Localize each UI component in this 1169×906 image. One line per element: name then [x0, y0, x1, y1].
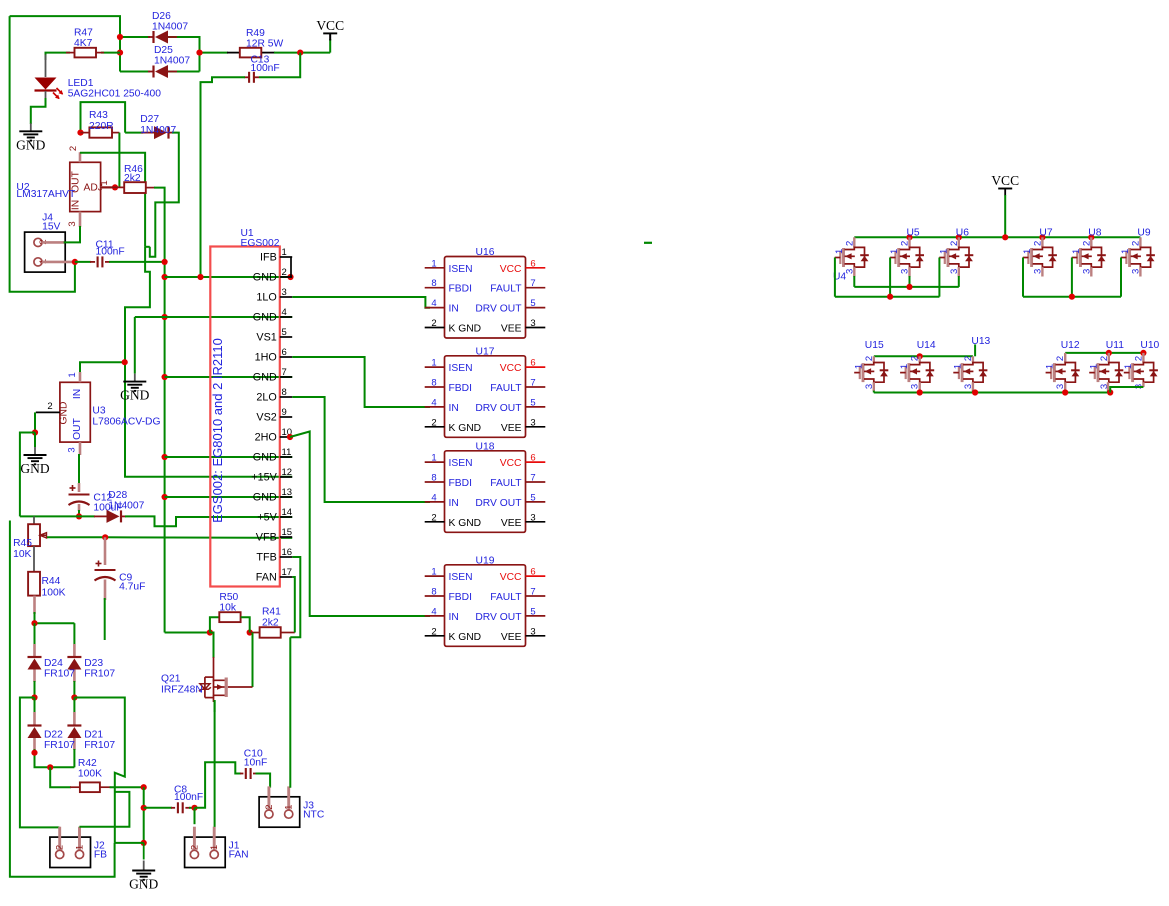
svg-text:GND: GND — [129, 877, 158, 892]
svg-text:ISEN: ISEN — [449, 458, 473, 469]
svg-text:3: 3 — [282, 287, 287, 298]
svg-text:FBDI: FBDI — [449, 592, 472, 603]
svg-text:U6: U6 — [956, 228, 969, 239]
svg-text:1: 1 — [284, 805, 295, 810]
svg-text:15V: 15V — [42, 222, 60, 233]
svg-text:220R: 220R — [89, 121, 114, 132]
svg-text:100nF: 100nF — [251, 63, 280, 74]
svg-text:1: 1 — [1071, 249, 1082, 254]
svg-text:8: 8 — [431, 278, 436, 289]
svg-text:2: 2 — [1133, 356, 1144, 361]
svg-text:3: 3 — [67, 221, 78, 226]
svg-text:ISEN: ISEN — [449, 363, 473, 374]
svg-text:D21: D21 — [84, 730, 103, 741]
svg-text:3: 3 — [530, 318, 535, 329]
svg-text:D27: D27 — [140, 114, 159, 125]
svg-text:U9: U9 — [1137, 228, 1150, 239]
svg-text:DRV OUT: DRV OUT — [475, 498, 522, 509]
svg-text:U16: U16 — [476, 247, 495, 258]
svg-text:10nF: 10nF — [244, 758, 267, 769]
svg-text:8: 8 — [431, 587, 436, 598]
svg-text:7: 7 — [530, 278, 535, 289]
svg-text:EGS002: EG8010 and 2 IR2110: EGS002: EG8010 and 2 IR2110 — [210, 338, 225, 523]
svg-text:GND: GND — [253, 372, 277, 384]
svg-text:11: 11 — [282, 447, 292, 458]
svg-text:7: 7 — [282, 367, 287, 378]
svg-text:1: 1 — [1088, 364, 1099, 369]
svg-text:VEE: VEE — [501, 423, 522, 434]
svg-text:D22: D22 — [44, 730, 63, 741]
svg-text:1: 1 — [899, 364, 910, 369]
svg-text:U5: U5 — [907, 228, 920, 239]
svg-text:2: 2 — [68, 146, 79, 151]
svg-text:VEE: VEE — [501, 518, 522, 529]
svg-text:FAULT: FAULT — [490, 478, 522, 489]
svg-text:2: 2 — [431, 626, 436, 637]
svg-text:FAN: FAN — [256, 572, 277, 584]
svg-text:16: 16 — [282, 547, 293, 558]
svg-text:12R 5W: 12R 5W — [246, 39, 283, 50]
svg-text:U13: U13 — [971, 336, 990, 347]
svg-text:5AG2HC01 250-400: 5AG2HC01 250-400 — [68, 89, 162, 100]
svg-text:R45: R45 — [13, 538, 32, 549]
svg-text:6: 6 — [530, 258, 535, 269]
svg-text:7: 7 — [530, 587, 535, 598]
svg-text:IFB: IFB — [260, 252, 277, 264]
svg-text:VFB: VFB — [256, 532, 277, 544]
svg-text:4.7uF: 4.7uF — [119, 582, 145, 593]
svg-text:8: 8 — [282, 387, 287, 398]
svg-text:FR107: FR107 — [84, 669, 115, 680]
svg-text:U17: U17 — [476, 346, 495, 357]
svg-text:R47: R47 — [74, 28, 93, 39]
svg-text:4: 4 — [431, 397, 436, 408]
svg-text:IN: IN — [449, 403, 459, 414]
svg-text:2: 2 — [264, 805, 275, 810]
svg-text:GND: GND — [120, 388, 149, 403]
svg-text:D26: D26 — [152, 11, 171, 22]
svg-text:1: 1 — [209, 845, 220, 850]
svg-text:LM317AHVT: LM317AHVT — [16, 189, 76, 200]
svg-text:1: 1 — [431, 567, 436, 578]
svg-text:R41: R41 — [262, 607, 281, 618]
svg-text:U19: U19 — [476, 555, 495, 566]
svg-text:FAULT: FAULT — [490, 592, 522, 603]
svg-text:GND: GND — [253, 272, 277, 284]
svg-text:2: 2 — [282, 267, 287, 278]
svg-text:1: 1 — [75, 845, 86, 850]
svg-text:2k2: 2k2 — [124, 173, 141, 184]
svg-text:R43: R43 — [89, 110, 108, 121]
svg-text:U14: U14 — [917, 340, 936, 351]
svg-text:8: 8 — [431, 378, 436, 389]
svg-text:VCC: VCC — [500, 363, 522, 374]
svg-text:5: 5 — [282, 327, 287, 338]
svg-text:U11: U11 — [1106, 340, 1124, 351]
svg-text:ISEN: ISEN — [449, 264, 473, 275]
svg-text:ISEN: ISEN — [449, 572, 473, 583]
svg-text:100nF: 100nF — [174, 792, 203, 803]
svg-text:GND: GND — [253, 312, 277, 324]
svg-text:1: 1 — [282, 247, 287, 258]
svg-text:14: 14 — [282, 507, 293, 518]
svg-text:GND: GND — [253, 492, 277, 504]
svg-text:2: 2 — [47, 401, 52, 412]
svg-text:2: 2 — [431, 417, 436, 428]
svg-text:IRFZ48N: IRFZ48N — [161, 685, 203, 696]
svg-text:VCC: VCC — [500, 264, 522, 275]
svg-text:FR107: FR107 — [44, 669, 75, 680]
svg-text:VCC: VCC — [500, 458, 522, 469]
svg-text:2: 2 — [864, 356, 875, 361]
svg-text:3: 3 — [530, 512, 535, 523]
svg-text:3: 3 — [530, 417, 535, 428]
svg-text:FR107: FR107 — [84, 740, 115, 751]
svg-text:K GND: K GND — [449, 324, 482, 335]
svg-text:15: 15 — [282, 527, 293, 538]
svg-text:6: 6 — [530, 453, 535, 464]
svg-text:VCC: VCC — [500, 572, 522, 583]
svg-text:FAULT: FAULT — [490, 383, 522, 394]
svg-text:6: 6 — [282, 347, 287, 358]
svg-text:2: 2 — [431, 318, 436, 329]
svg-text:2: 2 — [189, 845, 200, 850]
svg-text:7: 7 — [530, 473, 535, 484]
svg-text:4: 4 — [431, 606, 436, 617]
svg-text:2: 2 — [900, 241, 911, 246]
svg-text:2: 2 — [963, 356, 974, 361]
svg-text:1: 1 — [853, 364, 864, 369]
svg-text:13: 13 — [282, 487, 293, 498]
svg-text:VS2: VS2 — [256, 412, 276, 424]
svg-text:GND: GND — [20, 461, 49, 476]
svg-text:4: 4 — [282, 307, 287, 318]
svg-text:2HO: 2HO — [255, 432, 277, 444]
svg-text:6: 6 — [530, 567, 535, 578]
svg-text:IN: IN — [449, 304, 459, 315]
svg-text:8: 8 — [431, 473, 436, 484]
svg-text:R42: R42 — [78, 758, 97, 769]
svg-text:+15V: +15V — [251, 472, 277, 484]
svg-text:1HO: 1HO — [255, 352, 277, 364]
svg-text:1N4007: 1N4007 — [140, 125, 176, 136]
svg-text:1: 1 — [1120, 249, 1131, 254]
svg-text:1: 1 — [431, 453, 436, 464]
svg-text:VEE: VEE — [501, 632, 522, 643]
svg-text:U3: U3 — [92, 406, 105, 417]
svg-text:5: 5 — [530, 606, 535, 617]
svg-text:VS1: VS1 — [256, 332, 276, 344]
svg-text:DRV OUT: DRV OUT — [475, 304, 522, 315]
svg-text:1: 1 — [938, 249, 949, 254]
svg-text:FBDI: FBDI — [449, 478, 472, 489]
svg-text:VCC: VCC — [316, 18, 344, 33]
svg-text:DRV OUT: DRV OUT — [475, 403, 522, 414]
svg-text:5: 5 — [530, 298, 535, 309]
svg-text:1: 1 — [67, 372, 78, 377]
svg-text:4: 4 — [431, 298, 436, 309]
svg-text:10K: 10K — [13, 549, 31, 560]
svg-text:GND: GND — [59, 402, 70, 425]
svg-text:2: 2 — [1081, 241, 1092, 246]
svg-text:U15: U15 — [865, 340, 884, 351]
svg-text:IN: IN — [449, 612, 459, 623]
svg-text:3: 3 — [67, 447, 78, 452]
svg-text:1: 1 — [889, 249, 900, 254]
svg-text:4: 4 — [431, 492, 436, 503]
svg-text:L7806ACV-DG: L7806ACV-DG — [92, 417, 160, 428]
svg-text:17: 17 — [282, 567, 293, 578]
svg-text:2: 2 — [949, 241, 960, 246]
svg-text:1: 1 — [431, 358, 436, 369]
svg-text:LED1: LED1 — [68, 78, 94, 89]
svg-text:1: 1 — [952, 364, 963, 369]
svg-text:EGS002: EGS002 — [241, 238, 280, 249]
svg-text:U10: U10 — [1140, 340, 1159, 351]
svg-text:FR107: FR107 — [44, 740, 75, 751]
svg-text:IN: IN — [71, 200, 82, 210]
svg-text:R44: R44 — [42, 576, 61, 587]
svg-text:TFB: TFB — [256, 552, 276, 564]
svg-text:DRV OUT: DRV OUT — [475, 612, 522, 623]
svg-text:12: 12 — [282, 467, 293, 478]
svg-text:2: 2 — [1099, 356, 1110, 361]
svg-text:D24: D24 — [44, 658, 63, 669]
svg-text:3: 3 — [530, 626, 535, 637]
svg-text:VEE: VEE — [501, 324, 522, 335]
svg-text:D25: D25 — [154, 45, 173, 56]
svg-text:2LO: 2LO — [256, 392, 276, 404]
svg-text:U18: U18 — [476, 441, 495, 452]
svg-text:U7: U7 — [1039, 228, 1052, 239]
svg-text:K GND: K GND — [449, 518, 482, 529]
svg-text:U12: U12 — [1061, 340, 1080, 351]
svg-text:U8: U8 — [1088, 228, 1101, 239]
svg-text:2: 2 — [844, 241, 855, 246]
svg-text:OUT: OUT — [72, 417, 83, 439]
svg-text:5: 5 — [530, 492, 535, 503]
svg-text:100nF: 100nF — [96, 247, 125, 258]
svg-text:Q21: Q21 — [161, 674, 181, 685]
svg-text:7: 7 — [530, 378, 535, 389]
svg-text:FB: FB — [94, 850, 107, 861]
svg-text:5: 5 — [530, 397, 535, 408]
svg-text:10k: 10k — [219, 603, 236, 614]
svg-text:2: 2 — [1130, 241, 1141, 246]
svg-text:NTC: NTC — [303, 809, 325, 820]
svg-text:FBDI: FBDI — [449, 284, 472, 295]
svg-text:VCC: VCC — [991, 173, 1019, 188]
svg-text:2: 2 — [55, 845, 66, 850]
svg-text:R49: R49 — [246, 28, 265, 39]
svg-text:K GND: K GND — [449, 423, 482, 434]
svg-text:6: 6 — [530, 358, 535, 369]
svg-text:K GND: K GND — [449, 632, 482, 643]
svg-text:GND: GND — [253, 452, 277, 464]
svg-text:+5V: +5V — [257, 512, 277, 524]
svg-text:2: 2 — [1032, 241, 1043, 246]
svg-text:IN: IN — [449, 498, 459, 509]
svg-text:GND: GND — [16, 137, 45, 152]
svg-text:D23: D23 — [84, 658, 103, 669]
svg-text:1N4007: 1N4007 — [152, 22, 188, 33]
svg-text:1LO: 1LO — [256, 292, 276, 304]
svg-text:R50: R50 — [219, 592, 238, 603]
svg-text:100K: 100K — [78, 769, 102, 780]
svg-text:1N4007: 1N4007 — [108, 500, 144, 511]
svg-text:100K: 100K — [42, 588, 66, 599]
svg-text:FAULT: FAULT — [490, 284, 522, 295]
svg-text:1: 1 — [1045, 364, 1056, 369]
svg-text:FAN: FAN — [229, 850, 249, 861]
svg-text:FBDI: FBDI — [449, 383, 472, 394]
svg-text:2: 2 — [431, 512, 436, 523]
svg-text:2k2: 2k2 — [262, 618, 279, 629]
svg-text:2: 2 — [1055, 356, 1066, 361]
svg-text:1: 1 — [1123, 364, 1134, 369]
svg-text:4K7: 4K7 — [74, 38, 93, 49]
svg-text:2: 2 — [910, 356, 921, 361]
svg-text:1: 1 — [431, 258, 436, 269]
svg-text:IN: IN — [72, 389, 83, 399]
svg-text:1: 1 — [1022, 249, 1033, 254]
svg-text:1N4007: 1N4007 — [154, 56, 190, 67]
svg-text:1: 1 — [834, 249, 845, 254]
svg-text:1: 1 — [99, 180, 110, 185]
svg-text:9: 9 — [282, 407, 287, 418]
